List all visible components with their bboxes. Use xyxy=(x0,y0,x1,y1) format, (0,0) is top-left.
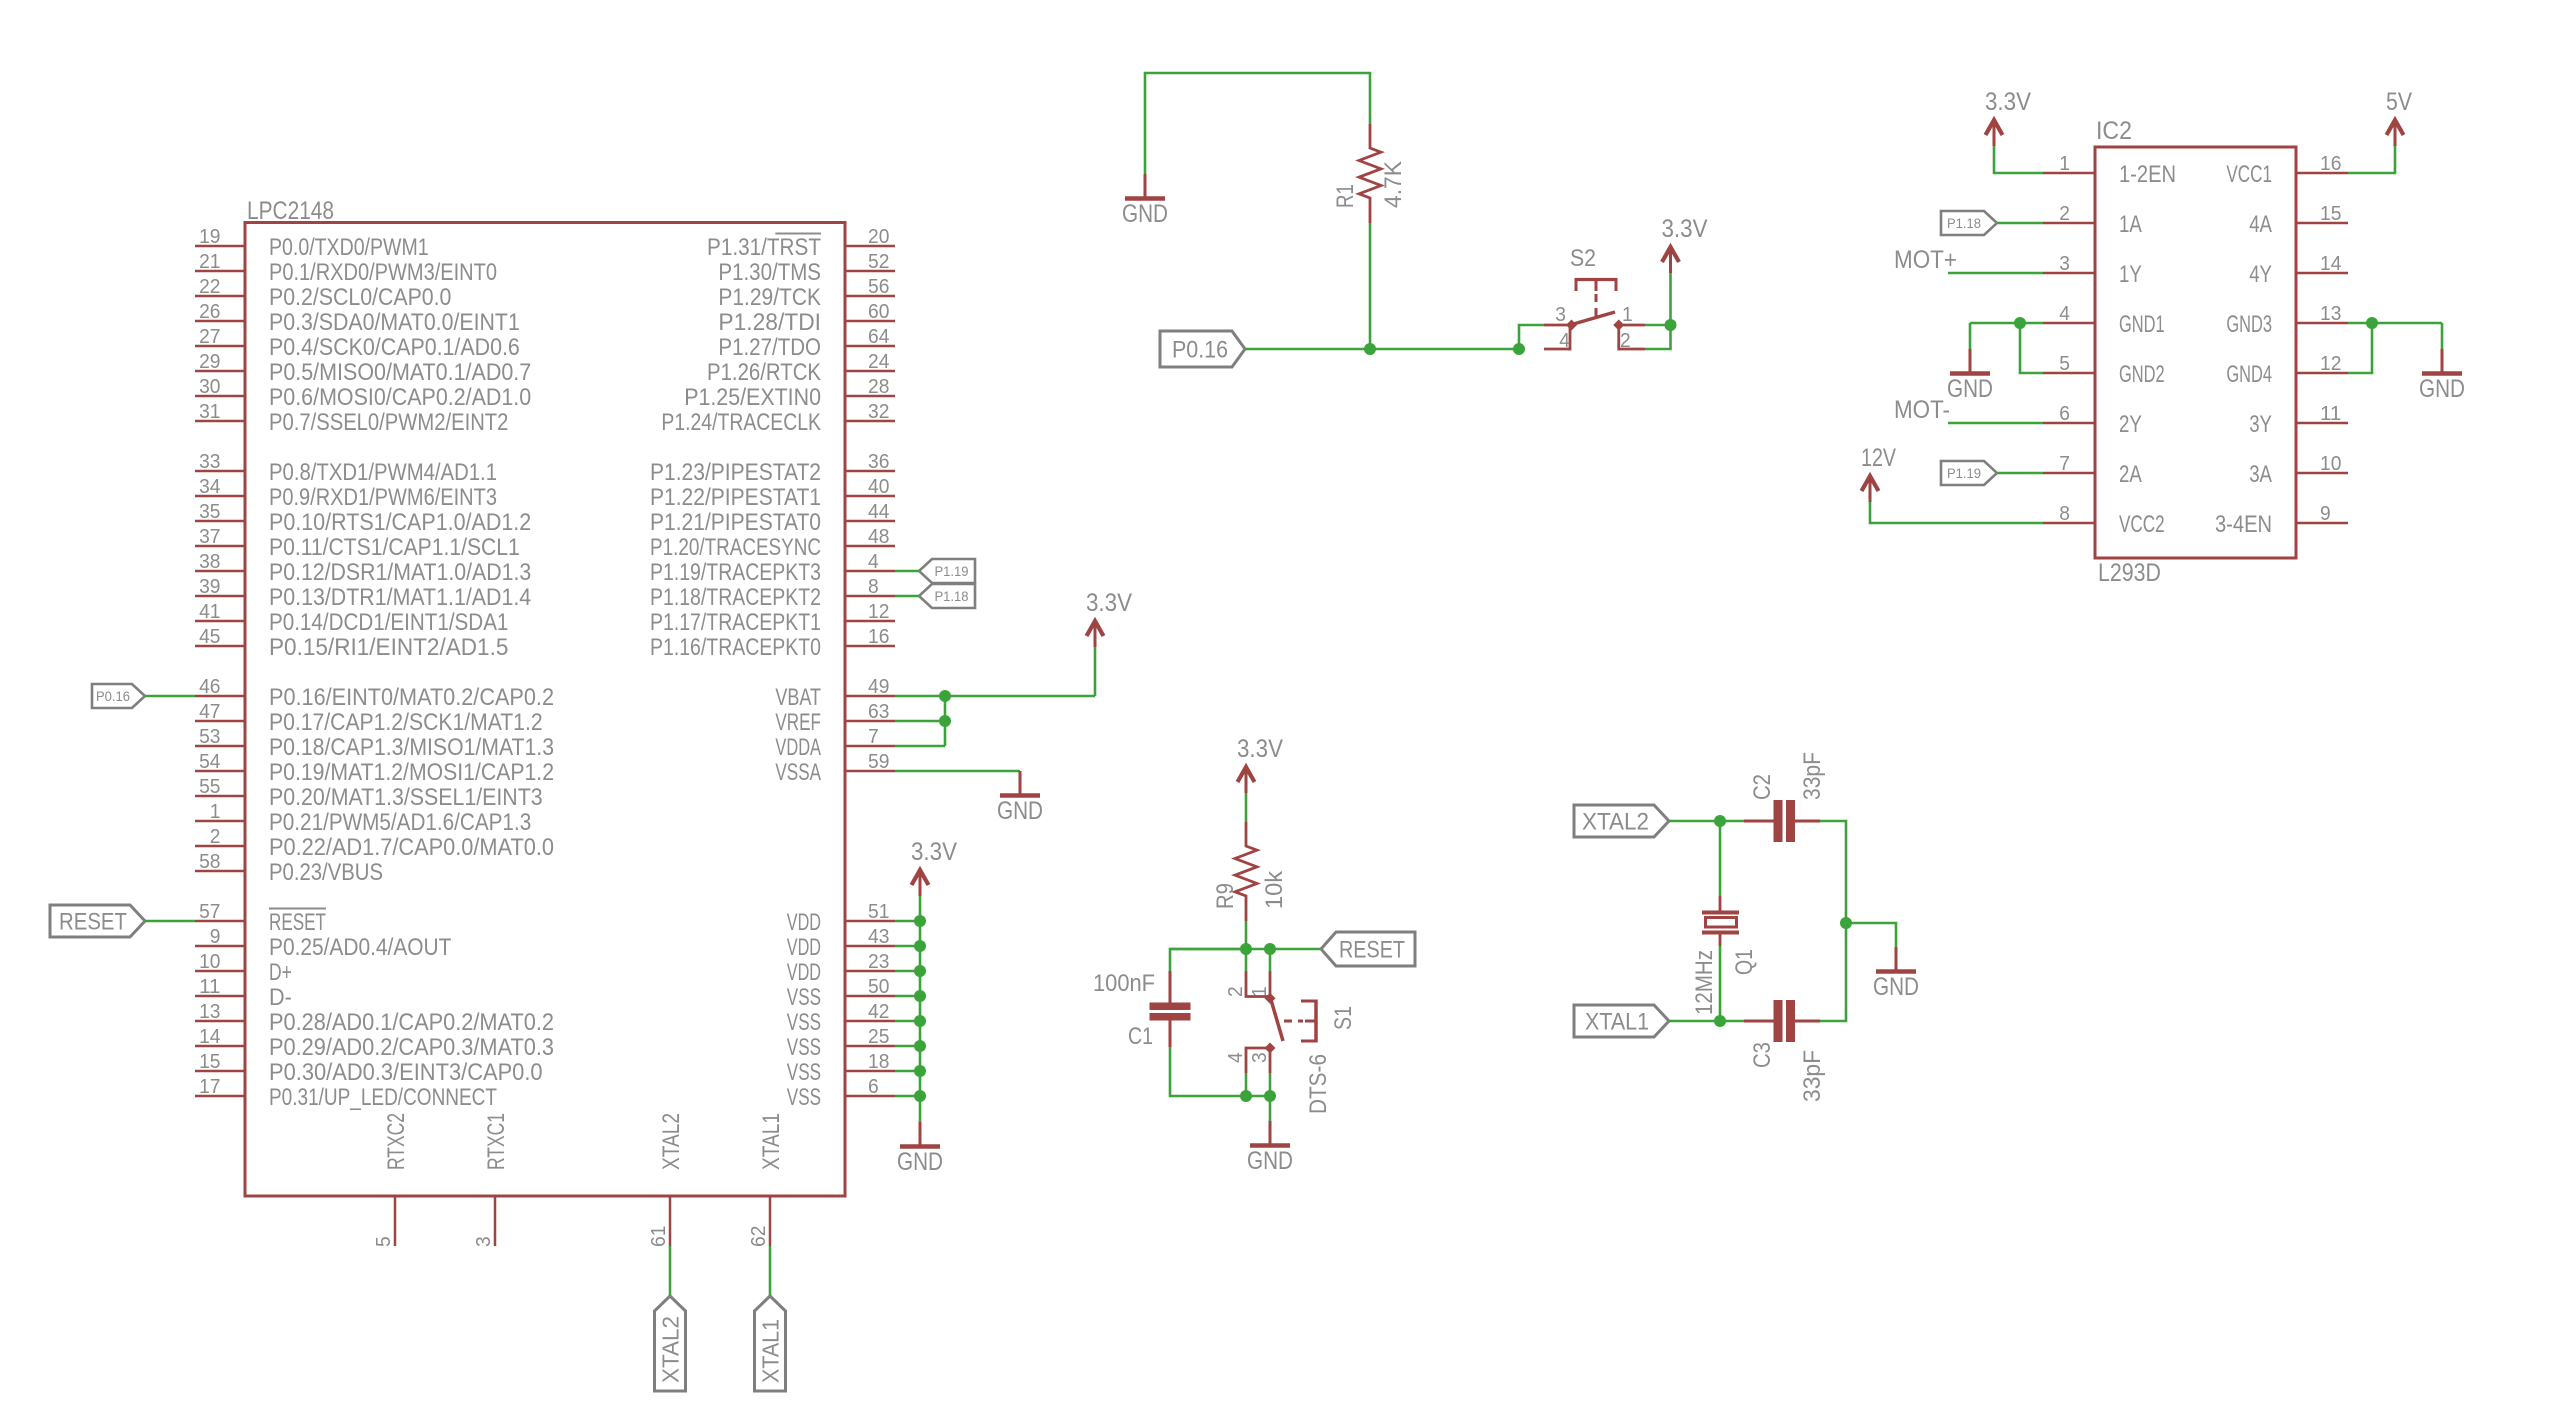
IC2 pin 13 GND3 xyxy=(2226,302,2348,338)
svg-text:32: 32 xyxy=(868,400,889,423)
svg-text:P0.13/DTR1/MAT1.1/AD1.4: P0.13/DTR1/MAT1.1/AD1.4 xyxy=(269,584,531,611)
U1 pin 2 P0.22/AD1.7/CAP0.0/MAT0.0 xyxy=(195,825,554,861)
svg-text:52: 52 xyxy=(868,250,889,273)
svg-text:33: 33 xyxy=(199,450,220,473)
ground GND (VSSA) xyxy=(997,771,1043,825)
IC2 pin 15 4A xyxy=(2249,202,2348,238)
U1 pin 33 P0.8/TXD1/PWM4/AD1.1 xyxy=(195,450,497,486)
U1 pin 3 RTXC1 xyxy=(472,1113,510,1247)
U1 pin 17 P0.31/UP_LED/CONNECT xyxy=(195,1075,497,1111)
svg-text:27: 27 xyxy=(199,325,220,348)
U1 pin 49 VBAT xyxy=(775,675,895,711)
IC2 pin 11 3Y xyxy=(2249,402,2348,438)
junction VDD/VSS trunk xyxy=(914,1090,926,1102)
U1 pin 9 P0.25/AD0.4/AOUT xyxy=(195,925,452,961)
wire VDD/VSS pin row 1021 xyxy=(895,1020,920,1023)
svg-text:XTAL1: XTAL1 xyxy=(758,1113,785,1170)
svg-text:VCC2: VCC2 xyxy=(2119,511,2165,538)
svg-text:60: 60 xyxy=(868,300,889,323)
wire S2 pin3 hookup xyxy=(1519,325,1544,349)
svg-text:D-: D- xyxy=(269,984,292,1011)
wire gnd drop xyxy=(1269,1096,1272,1121)
svg-text:10k: 10k xyxy=(1261,870,1288,909)
svg-text:11: 11 xyxy=(199,975,220,998)
svg-text:MOT+: MOT+ xyxy=(1894,246,1957,274)
R9 name label xyxy=(1212,883,1239,909)
wire XTAL2 pin 61 drop xyxy=(669,1246,672,1296)
junction VDD/VSS trunk xyxy=(914,1015,926,1027)
wire 3.3V to R9 xyxy=(1245,793,1248,822)
U1 pin 57 RESET xyxy=(195,900,326,936)
svg-text:GND: GND xyxy=(1247,1147,1293,1175)
U1 pin 21 P0.1/RXD0/PWM3/EINT0 xyxy=(195,250,497,286)
U1 pin 47 P0.17/CAP1.2/SCK1/MAT1.2 xyxy=(195,700,543,736)
S1 pin 4 number xyxy=(1224,1052,1247,1063)
svg-text:28: 28 xyxy=(868,375,889,398)
U1 pin 54 P0.19/MAT1.2/MOSI1/CAP1.2 xyxy=(195,750,554,786)
IC2 value L293D xyxy=(2098,559,2161,587)
net flag XTAL1 (crystal) xyxy=(1574,1005,1669,1037)
svg-text:P1.19/TRACEPKT3: P1.19/TRACEPKT3 xyxy=(650,559,821,586)
svg-text:25: 25 xyxy=(868,1025,889,1048)
svg-text:63: 63 xyxy=(868,700,889,723)
junction VDD/VSS trunk xyxy=(914,1040,926,1052)
svg-text:49: 49 xyxy=(868,675,889,698)
wire S2 3.3V riser xyxy=(1669,273,1672,325)
svg-text:15: 15 xyxy=(199,1050,220,1073)
svg-text:43: 43 xyxy=(868,925,889,948)
svg-text:62: 62 xyxy=(747,1226,770,1247)
supply 12V xyxy=(1861,444,1896,502)
wire RESET net to C1 top xyxy=(1170,949,1246,971)
wire VSSA xyxy=(895,770,1020,773)
U1 pin 51 VDD xyxy=(787,900,895,936)
svg-text:2: 2 xyxy=(210,825,221,848)
svg-text:12MHz: 12MHz xyxy=(1691,950,1718,1015)
U1 pin 11 D- xyxy=(195,975,292,1011)
U1 pin 60 P1.28/TDI xyxy=(718,300,895,336)
svg-text:39: 39 xyxy=(199,575,220,598)
svg-text:R1: R1 xyxy=(1332,184,1359,208)
resistor R1 xyxy=(1359,124,1381,223)
capacitor C1 xyxy=(1150,971,1191,1047)
U1 name label LPC2148 xyxy=(247,197,334,225)
svg-text:S2: S2 xyxy=(1570,245,1596,272)
svg-text:LPC2148: LPC2148 xyxy=(247,197,334,225)
wire VBAT/VREF/VDDA trunk xyxy=(944,696,947,746)
svg-text:44: 44 xyxy=(868,500,889,523)
U1 pin 19 P0.0/TXD0/PWM1 xyxy=(195,225,429,261)
svg-text:P0.25/AD0.4/AOUT: P0.25/AD0.4/AOUT xyxy=(269,934,452,961)
svg-text:42: 42 xyxy=(868,1000,889,1023)
wire VCC1 to 5V xyxy=(2348,146,2395,173)
svg-text:VREF: VREF xyxy=(775,709,821,736)
U1 pin 6 VSS xyxy=(787,1075,895,1111)
svg-text:P0.0/TXD0/PWM1: P0.0/TXD0/PWM1 xyxy=(269,234,429,261)
U1 pin 46 P0.16/EINT0/MAT0.2/CAP0.2 xyxy=(195,675,554,711)
ground GND (R1 pullup top-left) xyxy=(1122,174,1168,228)
U1 pin 18 VSS xyxy=(787,1050,895,1086)
svg-text:54: 54 xyxy=(199,750,220,773)
wire VCC2 to 12V xyxy=(1870,502,2043,523)
U1 pin 1 P0.21/PWM5/AD1.6/CAP1.3 xyxy=(195,800,531,836)
U1 pin 5 RTXC2 xyxy=(372,1113,410,1247)
svg-text:3: 3 xyxy=(1555,303,1566,326)
svg-text:12: 12 xyxy=(868,600,889,623)
IC2 pin 1 1-2EN xyxy=(2043,152,2176,188)
U1 pin 29 P0.5/MISO0/MAT0.1/AD0.7 xyxy=(195,350,531,386)
svg-text:XTAL2: XTAL2 xyxy=(1582,809,1649,836)
svg-text:26: 26 xyxy=(199,300,220,323)
supply 3.3V xyxy=(1086,589,1132,647)
svg-text:L293D: L293D xyxy=(2098,559,2161,587)
svg-text:Q1: Q1 xyxy=(1731,949,1758,975)
svg-text:2: 2 xyxy=(1620,329,1631,352)
svg-text:P1.22/PIPESTAT1: P1.22/PIPESTAT1 xyxy=(650,484,821,511)
U1 pin 52 P1.30/TMS xyxy=(718,250,895,286)
svg-text:2: 2 xyxy=(2059,202,2070,225)
svg-text:20: 20 xyxy=(868,225,889,248)
wire VDD/VSS pin row 1096 xyxy=(895,1095,920,1098)
svg-text:36: 36 xyxy=(868,450,889,473)
C2 name label xyxy=(1749,774,1776,800)
svg-text:4Y: 4Y xyxy=(2249,261,2272,288)
net flag P1.19 (IC2 pin 7) xyxy=(1941,461,1997,485)
svg-text:50: 50 xyxy=(868,975,889,998)
svg-text:P0.10/RTS1/CAP1.0/AD1.2: P0.10/RTS1/CAP1.0/AD1.2 xyxy=(269,509,531,536)
IC2 pin 4 GND1 xyxy=(2043,302,2165,338)
svg-text:55: 55 xyxy=(199,775,220,798)
svg-text:P0.3/SDA0/MAT0.0/EINT1: P0.3/SDA0/MAT0.0/EINT1 xyxy=(269,309,520,336)
U1 pin 26 P0.3/SDA0/MAT0.0/EINT1 xyxy=(195,300,520,336)
wire VDD/VSS pin row 1046 xyxy=(895,1045,920,1048)
svg-text:GND2: GND2 xyxy=(2119,361,2165,388)
svg-text:17: 17 xyxy=(199,1075,220,1098)
ground GND (IC2 left) xyxy=(1947,349,1993,403)
svg-text:18: 18 xyxy=(868,1050,889,1073)
ground GND (reset circuit) xyxy=(1247,1121,1293,1175)
svg-text:P0.1/RXD0/PWM3/EINT0: P0.1/RXD0/PWM3/EINT0 xyxy=(269,259,497,286)
C3 name label xyxy=(1749,1042,1776,1068)
S1 pin 2 number xyxy=(1224,986,1247,997)
svg-text:4A: 4A xyxy=(2249,211,2272,238)
wire GND to R1 top xyxy=(1145,73,1370,174)
svg-text:37: 37 xyxy=(199,525,220,548)
wire VBAT xyxy=(895,695,1095,698)
S2 pin 1 number xyxy=(1622,303,1633,326)
svg-text:P0.30/AD0.3/EINT3/CAP0.0: P0.30/AD0.3/EINT3/CAP0.0 xyxy=(269,1059,543,1086)
svg-text:P1.29/TCK: P1.29/TCK xyxy=(718,284,821,311)
Q1 value 12MHz xyxy=(1691,950,1718,1015)
wire VDD/VSS trunk xyxy=(919,896,922,1122)
svg-text:S1: S1 xyxy=(1330,1006,1357,1030)
U1 pin 44 P1.21/PIPESTAT0 xyxy=(650,500,895,536)
U1 pin 56 P1.29/TCK xyxy=(718,275,895,311)
svg-text:P1.28/TDI: P1.28/TDI xyxy=(718,309,821,336)
U1 pin 55 P0.20/MAT1.3/SSEL1/EINT3 xyxy=(195,775,543,811)
IC IC2 L293D body xyxy=(2095,147,2296,558)
U1 pin 62 XTAL1 xyxy=(747,1113,785,1247)
U1 pin 27 P0.4/SCK0/CAP0.1/AD0.6 xyxy=(195,325,520,361)
wire Q1 to XTAL1 xyxy=(1719,946,1722,1021)
C1 name label xyxy=(1128,1023,1153,1050)
U1 pin 37 P0.11/CTS1/CAP1.1/SCL1 xyxy=(195,525,520,561)
IC2 pin 5 GND2 xyxy=(2043,352,2165,388)
svg-text:GND: GND xyxy=(897,1148,943,1176)
wire IC2 pin1 to 3.3V xyxy=(1994,146,2043,173)
svg-text:24: 24 xyxy=(868,350,889,373)
junction GND3/GND4 xyxy=(2366,317,2378,329)
svg-text:1: 1 xyxy=(1622,303,1633,326)
switch S1 (tact DTS-6) xyxy=(1245,971,1316,1073)
svg-text:8: 8 xyxy=(868,575,879,598)
junction VDD/VSS trunk xyxy=(914,965,926,977)
switch S2 (tact) xyxy=(1544,278,1645,350)
S1 name label xyxy=(1330,1006,1357,1030)
U1 pin 61 XTAL2 xyxy=(647,1113,685,1247)
svg-text:P0.23/VBUS: P0.23/VBUS xyxy=(269,859,383,886)
svg-text:GND: GND xyxy=(2419,375,2465,403)
net flag XTAL2 (crystal) xyxy=(1574,805,1669,837)
U1 pin 58 P0.23/VBUS xyxy=(195,850,383,886)
svg-text:41: 41 xyxy=(199,600,220,623)
svg-text:VDDA: VDDA xyxy=(775,734,821,761)
IC2 pin 7 2A xyxy=(2043,452,2142,488)
junction VBAT xyxy=(939,690,951,702)
svg-text:P1.18/TRACEPKT2: P1.18/TRACEPKT2 xyxy=(650,584,821,611)
svg-text:P0.16: P0.16 xyxy=(1172,337,1228,364)
C2 value 33pF xyxy=(1799,752,1826,800)
capacitor C2 xyxy=(1744,800,1820,842)
svg-text:P0.29/AD0.2/CAP0.3/MAT0.3: P0.29/AD0.2/CAP0.3/MAT0.3 xyxy=(269,1034,554,1061)
U1 pin 63 VREF xyxy=(775,700,895,736)
svg-text:P0.21/PWM5/AD1.6/CAP1.3: P0.21/PWM5/AD1.6/CAP1.3 xyxy=(269,809,531,836)
svg-text:19: 19 xyxy=(199,225,220,248)
svg-text:3Y: 3Y xyxy=(2249,411,2272,438)
IC2 pin 3 1Y xyxy=(2043,252,2142,288)
wire RESET to pin 57 xyxy=(145,920,195,923)
resistor R9 xyxy=(1235,822,1257,921)
R1 name label xyxy=(1332,184,1359,208)
U1 pin 12 P1.17/TRACEPKT1 xyxy=(650,600,895,636)
svg-text:47: 47 xyxy=(199,700,220,723)
junction RESET/R9 xyxy=(1240,943,1252,955)
supply 3.3V (reset) xyxy=(1237,735,1283,793)
svg-text:P1.25/EXTIN0: P1.25/EXTIN0 xyxy=(684,384,821,411)
junction VDD/VSS trunk xyxy=(914,915,926,927)
U1 pin 39 P0.13/DTR1/MAT1.1/AD1.4 xyxy=(195,575,531,611)
svg-text:XTAL1: XTAL1 xyxy=(758,1319,784,1383)
C3 value 33pF xyxy=(1799,1050,1826,1102)
svg-text:4.7K: 4.7K xyxy=(1380,161,1407,208)
U1 pin 43 VDD xyxy=(787,925,895,961)
wire P1.19 to IC2 pin 7 xyxy=(1997,472,2043,475)
U1 pin 8 P1.18/TRACEPKT2 xyxy=(650,575,895,611)
wire P1.18 to pin 8 xyxy=(895,595,919,598)
svg-text:XTAL2: XTAL2 xyxy=(658,1113,685,1170)
S1 value DTS-6 xyxy=(1305,1054,1332,1114)
svg-text:13: 13 xyxy=(2320,302,2341,325)
svg-text:GND: GND xyxy=(1122,200,1168,228)
supply 3.3V (S2) xyxy=(1662,215,1708,273)
svg-text:10: 10 xyxy=(2320,452,2341,475)
U1 pin 38 P0.12/DSR1/MAT1.0/AD1.3 xyxy=(195,550,531,586)
wire gnd drop right xyxy=(2441,323,2444,349)
svg-text:P0.31/UP_LED/CONNECT: P0.31/UP_LED/CONNECT xyxy=(269,1084,497,1111)
svg-text:1A: 1A xyxy=(2119,211,2142,238)
svg-text:P0.16/EINT0/MAT0.2/CAP0.2: P0.16/EINT0/MAT0.2/CAP0.2 xyxy=(269,684,554,711)
svg-text:1: 1 xyxy=(210,800,221,823)
svg-text:23: 23 xyxy=(868,950,889,973)
svg-text:4: 4 xyxy=(1559,329,1570,352)
U1 pin 28 P1.25/EXTIN0 xyxy=(684,375,895,411)
capacitor C3 xyxy=(1744,1000,1820,1042)
svg-text:P0.12/DSR1/MAT1.0/AD1.3: P0.12/DSR1/MAT1.0/AD1.3 xyxy=(269,559,531,586)
IC2 pin 6 2Y xyxy=(2043,402,2142,438)
net flag P0.16 (small, pin 46) xyxy=(92,684,145,708)
wire C2/C3 right rail xyxy=(1820,821,1846,1021)
svg-text:C2: C2 xyxy=(1749,774,1776,800)
C1 value 100nF xyxy=(1093,970,1155,997)
wire P1.19 to pin 4 xyxy=(895,570,919,573)
svg-text:RTXC2: RTXC2 xyxy=(383,1113,410,1170)
wire XTAL1 to C3 xyxy=(1720,1020,1744,1023)
svg-text:RESET: RESET xyxy=(1339,937,1405,964)
U1 pin 45 P0.15/RI1/EINT2/AD1.5 xyxy=(195,625,508,661)
svg-text:4: 4 xyxy=(2059,302,2070,325)
U1 pin 25 VSS xyxy=(787,1025,895,1061)
junction gnd tap xyxy=(1840,917,1852,929)
svg-text:2: 2 xyxy=(1224,986,1247,997)
supply 3.3V (IC2) xyxy=(1985,88,2031,146)
svg-text:P1.23/PIPESTAT2: P1.23/PIPESTAT2 xyxy=(650,459,821,486)
svg-text:13: 13 xyxy=(199,1000,220,1023)
svg-text:51: 51 xyxy=(868,900,889,923)
svg-text:64: 64 xyxy=(868,325,889,348)
S1 pin 3 number xyxy=(1248,1052,1271,1063)
wire gnd drop left xyxy=(1969,323,1972,349)
wire VDDA xyxy=(895,745,945,748)
svg-text:P1.30/TMS: P1.30/TMS xyxy=(718,259,821,286)
S1 pin 1 number xyxy=(1248,986,1271,997)
svg-text:53: 53 xyxy=(199,725,220,748)
wire P0.16 net horizontal xyxy=(1245,348,1519,351)
svg-text:P1.20/TRACESYNC: P1.20/TRACESYNC xyxy=(650,534,821,561)
net flag RESET (pin 57) xyxy=(50,905,145,937)
U1 pin 41 P0.14/DCD1/EINT1/SDA1 xyxy=(195,600,508,636)
wire XTAL2 to junction xyxy=(1669,820,1720,823)
svg-text:P1.18: P1.18 xyxy=(935,588,969,604)
svg-text:GND1: GND1 xyxy=(2119,311,2165,338)
svg-text:16: 16 xyxy=(2320,152,2341,175)
junction VREF xyxy=(939,715,951,727)
wire S2 pin2 hookup xyxy=(1645,325,1671,349)
svg-text:100nF: 100nF xyxy=(1093,970,1155,997)
net flag P1.18 (IC2 pin 2) xyxy=(1941,211,1997,235)
svg-text:RESET: RESET xyxy=(269,909,326,936)
svg-text:33pF: 33pF xyxy=(1799,752,1826,800)
S2 name label xyxy=(1570,245,1596,272)
crystal Q1 xyxy=(1702,896,1739,946)
svg-text:GND3: GND3 xyxy=(2226,311,2272,338)
ground GND (VSS trunk) xyxy=(897,1122,943,1176)
svg-text:MOT-: MOT- xyxy=(1894,396,1950,424)
wire VREF xyxy=(895,720,945,723)
svg-text:7: 7 xyxy=(868,725,879,748)
U1 pin 10 D+ xyxy=(195,950,292,986)
svg-text:1-2EN: 1-2EN xyxy=(2119,161,2176,188)
svg-text:1: 1 xyxy=(1248,986,1271,997)
wire VDD/VSS pin row 946 xyxy=(895,945,920,948)
junction VDD/VSS trunk xyxy=(914,1065,926,1077)
svg-text:XTAL1: XTAL1 xyxy=(1585,1009,1649,1036)
svg-text:46: 46 xyxy=(199,675,220,698)
junction S1 pin3/gnd xyxy=(1264,1090,1276,1102)
svg-text:6: 6 xyxy=(2059,402,2070,425)
svg-text:2A: 2A xyxy=(2119,461,2142,488)
svg-text:P0.7/SSEL0/PWM2/EINT2: P0.7/SSEL0/PWM2/EINT2 xyxy=(269,409,508,436)
junction S2 right xyxy=(1665,319,1677,331)
junction S2 left xyxy=(1513,343,1525,355)
svg-text:P0.4/SCK0/CAP0.1/AD0.6: P0.4/SCK0/CAP0.1/AD0.6 xyxy=(269,334,520,361)
svg-text:61: 61 xyxy=(647,1226,670,1247)
U1 pin 24 P1.26/RTCK xyxy=(707,350,895,386)
svg-text:3-4EN: 3-4EN xyxy=(2215,511,2272,538)
svg-text:P0.5/MISO0/MAT0.1/AD0.7: P0.5/MISO0/MAT0.1/AD0.7 xyxy=(269,359,531,386)
svg-text:15: 15 xyxy=(2320,202,2341,225)
wire VDD/VSS pin row 996 xyxy=(895,995,920,998)
IC2 pin 2 1A xyxy=(2043,202,2142,238)
svg-text:P1.26/RTCK: P1.26/RTCK xyxy=(707,359,821,386)
svg-text:XTAL2: XTAL2 xyxy=(658,1316,684,1383)
net flag XTAL1 (bottom) xyxy=(755,1296,786,1391)
U1 pin 23 VDD xyxy=(787,950,895,986)
U1 pin 35 P0.10/RTS1/CAP1.0/AD1.2 xyxy=(195,500,531,536)
svg-text:12V: 12V xyxy=(1861,444,1896,472)
svg-text:34: 34 xyxy=(199,475,220,498)
svg-text:8: 8 xyxy=(2059,502,2070,525)
S2 pin 2 number xyxy=(1620,329,1631,352)
junction VDD/VSS trunk xyxy=(914,990,926,1002)
wire XTAL2 to Q1 xyxy=(1719,821,1722,896)
U1 pin 14 P0.29/AD0.2/CAP0.3/MAT0.3 xyxy=(195,1025,554,1061)
svg-text:P0.14/DCD1/EINT1/SDA1: P0.14/DCD1/EINT1/SDA1 xyxy=(269,609,508,636)
svg-text:C3: C3 xyxy=(1749,1042,1776,1068)
svg-text:38: 38 xyxy=(199,550,220,573)
U1 pin 64 P1.27/TDO xyxy=(718,325,895,361)
wire RESET net horizontal xyxy=(1170,948,1321,951)
svg-text:3.3V: 3.3V xyxy=(1662,215,1708,243)
R1 value 4.7K xyxy=(1380,161,1407,208)
svg-text:48: 48 xyxy=(868,525,889,548)
svg-text:R9: R9 xyxy=(1212,883,1239,909)
wire C1 bottom to gnd rail xyxy=(1170,1047,1270,1096)
U1 pin 48 P1.20/TRACESYNC xyxy=(650,525,895,561)
svg-text:45: 45 xyxy=(199,625,220,648)
wire S1 pin1 hookup xyxy=(1269,949,1272,971)
svg-text:DTS-6: DTS-6 xyxy=(1305,1054,1332,1114)
svg-text:VSS: VSS xyxy=(787,1059,821,1086)
svg-text:5: 5 xyxy=(2059,352,2070,375)
U1 pin 15 P0.30/AD0.3/EINT3/CAP0.0 xyxy=(195,1050,543,1086)
junction XTAL1 xyxy=(1714,1015,1726,1027)
wire P0.16 to pin 46 xyxy=(145,695,195,698)
U1 pin 59 VSSA xyxy=(775,750,895,786)
wire VDD/VSS pin row 1071 xyxy=(895,1070,920,1073)
S2 pin 4 number xyxy=(1559,329,1570,352)
net label MOT+ xyxy=(1894,246,1957,274)
svg-text:10: 10 xyxy=(199,950,220,973)
